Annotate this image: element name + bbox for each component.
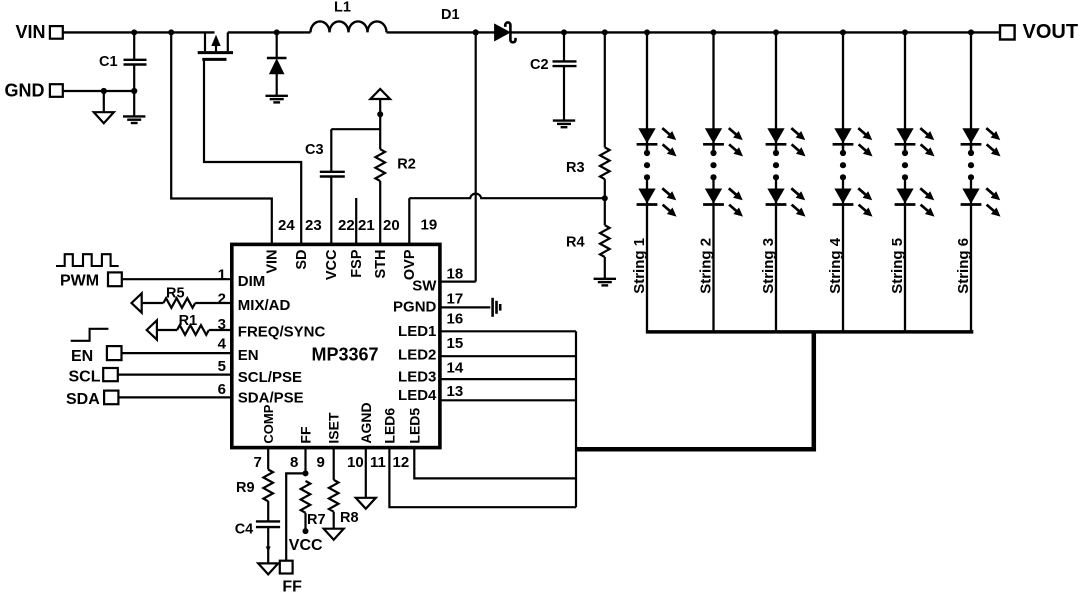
svg-text:ISET: ISET <box>326 412 342 444</box>
svg-text:11: 11 <box>370 454 386 471</box>
ground at C4 <box>258 563 278 574</box>
transistor Q1 PMOS <box>204 32 206 51</box>
svg-text:STH: STH <box>373 250 389 279</box>
svg-text:VCC: VCC <box>324 249 340 280</box>
wire L1 to D1 <box>387 31 495 33</box>
svg-text:18: 18 <box>447 265 464 282</box>
svg-text:FF: FF <box>298 426 314 444</box>
svg-text:D1: D1 <box>441 7 460 23</box>
svg-text:SCL: SCL <box>69 369 101 386</box>
svg-text:4: 4 <box>218 335 227 352</box>
svg-text:COMP: COMP <box>261 404 276 443</box>
svg-text:String 4: String 4 <box>827 237 844 293</box>
wire pin 1 <box>122 278 232 280</box>
wire GND <box>63 90 134 92</box>
svg-text:FSP: FSP <box>349 249 365 278</box>
svg-text:1: 1 <box>218 266 226 283</box>
svg-text:String 6: String 6 <box>955 238 972 294</box>
svg-text:MP3367: MP3367 <box>311 344 378 364</box>
op-amp U1 MP3367 body <box>232 244 440 447</box>
svg-text:DIM: DIM <box>238 273 265 290</box>
svg-text:EN: EN <box>238 347 259 364</box>
wire VIN rail left <box>63 31 215 33</box>
svg-text:20: 20 <box>383 217 400 234</box>
wire LED collector vertical <box>575 331 577 507</box>
node FF terminal <box>280 561 293 574</box>
svg-text:String 3: String 3 <box>760 238 777 294</box>
pin name FSP <box>349 249 365 278</box>
node VCC <box>303 528 309 534</box>
wire SW node drop <box>475 32 477 281</box>
junction VIN feed <box>168 29 174 35</box>
svg-text:19: 19 <box>421 217 438 234</box>
svg-text:8: 8 <box>290 454 298 471</box>
LED string 3 <box>766 29 806 332</box>
svg-text:LED1: LED1 <box>398 323 436 340</box>
svg-text:12: 12 <box>393 454 410 471</box>
ground at R8 <box>324 529 344 540</box>
svg-text:SD: SD <box>294 250 310 270</box>
LED string 4 <box>833 29 873 332</box>
wire rail mosfet to L1 <box>228 31 311 33</box>
svg-text:VIN: VIN <box>265 250 281 274</box>
svg-text:PGND: PGND <box>393 299 437 316</box>
svg-text:VIN: VIN <box>15 22 45 42</box>
wire VIN to pin 24 <box>171 32 272 244</box>
svg-text:15: 15 <box>447 335 464 352</box>
pin name STH <box>373 250 389 279</box>
svg-text:R4: R4 <box>566 234 585 250</box>
ground (open) at GND <box>103 91 105 112</box>
svg-text:LED6: LED6 <box>381 408 397 444</box>
svg-text:LED2: LED2 <box>398 346 436 363</box>
svg-text:MIX/AD: MIX/AD <box>238 297 291 314</box>
diode D2 clamp <box>274 29 280 35</box>
svg-text:R2: R2 <box>397 157 416 173</box>
svg-text:14: 14 <box>447 360 464 377</box>
svg-text:GND: GND <box>5 81 45 101</box>
node OVP junction <box>602 195 608 201</box>
wire pin 11 LED6 <box>389 448 576 508</box>
svg-text:13: 13 <box>447 383 464 400</box>
svg-text:String 1: String 1 <box>631 238 648 294</box>
svg-text:OVP: OVP <box>402 249 418 280</box>
svg-text:L1: L1 <box>334 0 351 16</box>
waveform EN step <box>71 329 109 341</box>
wire gate to pin 23 SD <box>204 59 301 244</box>
wire LED3 pin 14 <box>440 378 576 380</box>
svg-text:R8: R8 <box>340 510 359 526</box>
ground at D2 <box>266 96 288 103</box>
wire pin 6 <box>118 396 231 398</box>
svg-text:9: 9 <box>317 454 325 471</box>
pin name SD <box>294 250 310 270</box>
svg-text:7: 7 <box>254 454 262 471</box>
junction gnd C1 <box>131 88 137 94</box>
svg-text:LED3: LED3 <box>398 369 436 386</box>
wire LED4 pin 13 <box>440 399 576 401</box>
wire D1 to VOUT <box>510 31 1000 33</box>
ground at AGND <box>356 498 376 509</box>
svg-text:AGND: AGND <box>358 402 374 443</box>
wire pin 10 AGND <box>365 448 367 498</box>
bottom pin names rotated <box>261 404 276 443</box>
svg-text:SDA: SDA <box>66 391 100 408</box>
wire OVP with hop <box>409 194 605 199</box>
svg-text:SCL/PSE: SCL/PSE <box>238 369 302 386</box>
svg-text:21: 21 <box>358 217 375 234</box>
svg-text:R3: R3 <box>566 160 585 176</box>
wire LED1 pin 16 <box>440 330 576 332</box>
svg-text:C2: C2 <box>530 57 549 73</box>
LED string 6 <box>961 29 1001 332</box>
svg-text:5: 5 <box>218 358 226 375</box>
svg-text:EN: EN <box>71 348 93 365</box>
pin name VIN <box>265 250 281 274</box>
svg-text:SW: SW <box>412 278 437 295</box>
svg-text:C3: C3 <box>305 142 324 158</box>
svg-text:String 2: String 2 <box>698 238 715 294</box>
svg-text:16: 16 <box>447 311 464 328</box>
ground at C2 <box>553 121 575 128</box>
wire pin 12 LED5 <box>414 448 576 479</box>
ground PGND <box>493 298 501 317</box>
svg-text:SDA/PSE: SDA/PSE <box>238 390 304 407</box>
pin name OVP <box>402 249 418 280</box>
svg-text:10: 10 <box>347 454 364 471</box>
svg-text:C1: C1 <box>99 54 118 70</box>
svg-text:LED5: LED5 <box>406 408 422 444</box>
LED string 1 <box>637 29 677 332</box>
wire pin 17 PGND <box>440 306 490 308</box>
svg-text:String 5: String 5 <box>889 238 906 294</box>
junction gnd <box>101 88 107 94</box>
LED string 5 <box>895 29 935 332</box>
svg-text:23: 23 <box>305 217 322 234</box>
svg-text:22: 22 <box>338 217 355 234</box>
pin name VCC <box>324 249 340 280</box>
ground at R4 <box>594 279 616 286</box>
svg-text:17: 17 <box>447 290 464 307</box>
svg-text:R7: R7 <box>307 512 326 528</box>
wire pin 4 <box>122 352 232 354</box>
svg-text:R9: R9 <box>236 480 255 496</box>
svg-text:2: 2 <box>218 290 226 307</box>
wire pin 5 <box>118 374 232 376</box>
svg-text:VOUT: VOUT <box>1023 21 1079 43</box>
svg-text:24: 24 <box>278 217 295 234</box>
svg-text:PWM: PWM <box>60 272 99 289</box>
wire thick LED return bus <box>576 332 814 449</box>
waveform PWM <box>56 254 119 266</box>
pin 21 stub <box>355 198 357 244</box>
wire LED2 pin 15 <box>440 355 576 357</box>
svg-text:6: 6 <box>218 381 226 398</box>
svg-text:FREQ/SYNC: FREQ/SYNC <box>238 324 326 341</box>
svg-text:VCC: VCC <box>289 537 323 554</box>
svg-text:FF: FF <box>282 578 302 592</box>
LED string 2 <box>703 29 743 332</box>
ground at C1 <box>123 116 145 123</box>
node VOUT terminal <box>1000 25 1015 39</box>
wire strings bottom bus <box>646 330 973 334</box>
svg-text:LED4: LED4 <box>398 387 437 404</box>
node STH arrow <box>370 89 390 99</box>
svg-text:C4: C4 <box>235 522 254 538</box>
wire FF branch <box>286 473 305 560</box>
